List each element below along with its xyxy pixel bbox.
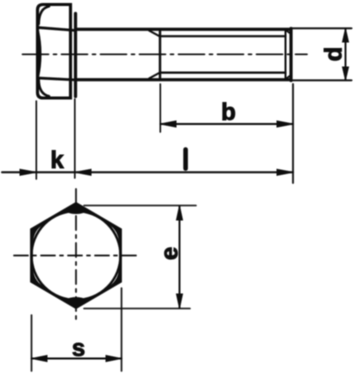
washer face line under head — [74, 14, 77, 97]
dimension d line — [345, 29, 347, 80]
bolt axis centerline — [23, 53, 308, 55]
dimension e arrow down — [177, 294, 183, 308]
thread runout diagonal top — [149, 31, 160, 37]
dimension b line — [160, 123, 293, 125]
dimension d bottom extension line — [292, 79, 352, 81]
dimension d arrow up — [343, 29, 349, 42]
head top facet chamfer arc — [39, 6, 49, 24]
dimension s arrow right — [106, 356, 121, 362]
hex horizontal centerline — [14, 255, 140, 257]
dimension b/l right extension line — [292, 84, 294, 183]
dimension e top extension line — [84, 205, 196, 207]
hex vertical centerline — [75, 189, 77, 324]
head facet line lower — [38, 78, 75, 80]
head bottom facet chamfer arc — [39, 80, 49, 96]
label l — [183, 150, 188, 169]
dimension b arrow right — [277, 121, 293, 127]
bolt end chamfer edge — [285, 31, 287, 78]
dimension s right extension line — [121, 288, 123, 371]
dimension k and l shared line — [2, 171, 293, 173]
bolt end chamfer diagonal bottom — [285, 75, 291, 80]
dimension s left extension line — [31, 315, 33, 371]
dimension l arrow right — [277, 169, 293, 175]
hex corner wedge lower-left — [32, 269, 42, 287]
bolt end face — [289, 29, 292, 81]
hex head top view: hexagon — [32, 204, 121, 308]
hex corner wedge lower-right — [110, 269, 120, 287]
bolt end chamfer diagonal top — [285, 30, 291, 35]
hex corner wedge upper-right — [110, 224, 120, 242]
dimension s arrow left — [32, 356, 47, 362]
hex chamfer circle — [32, 211, 121, 300]
svg-text:e: e — [157, 247, 184, 260]
dimension k outside arrow pointing right — [20, 169, 36, 175]
hex corner wedge upper-left — [32, 224, 42, 242]
svg-text:k: k — [50, 147, 64, 174]
dimension d arrow down — [343, 67, 349, 80]
dimension k right / l left extension line — [74, 99, 76, 178]
thread runout diagonal bottom — [149, 73, 160, 79]
dimension e bottom extension line — [84, 308, 190, 310]
thread minor diameter bottom line — [160, 71, 286, 73]
bolt head outline (side view) — [38, 5, 71, 99]
dimension k left extension line — [35, 101, 37, 179]
svg-text:s: s — [72, 335, 85, 362]
head facet line upper — [38, 28, 75, 31]
dimension l arrow left — [75, 169, 91, 175]
head middle facet arc — [38, 31, 40, 77]
dimension e arrow up — [177, 206, 183, 220]
dimension s line — [32, 358, 122, 360]
dimension d top extension line — [292, 27, 352, 29]
shank top outline — [77, 28, 291, 31]
svg-text:b: b — [221, 99, 236, 126]
hex corner wedge top — [65, 204, 88, 213]
shank bottom outline — [77, 78, 291, 81]
hex corner wedge bottom — [65, 298, 88, 307]
thread runout line — [159, 30, 161, 79]
dimension b arrow left — [161, 121, 177, 127]
thread minor diameter top line — [160, 35, 286, 37]
dimension e line — [179, 206, 181, 308]
svg-text:d: d — [321, 47, 348, 62]
dimension b left extension line — [159, 84, 161, 132]
